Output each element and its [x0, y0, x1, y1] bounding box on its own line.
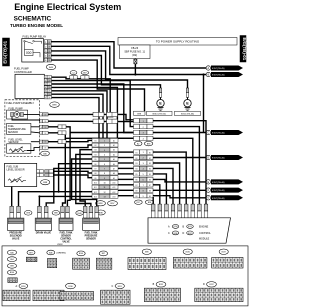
- connector arrow C: [206, 130, 210, 134]
- wire node B down to node C wire: [203, 75, 205, 133]
- svg-text:1B: 1B: [44, 114, 46, 116]
- svg-text:E157(TB-46): E157(TB-46): [212, 198, 225, 200]
- wire to column2 r3: [70, 132, 133, 134]
- svg-text:B146: B146: [10, 272, 14, 274]
- svg-text:2B: 2B: [48, 60, 50, 62]
- svg-text:B97: B97: [102, 253, 105, 255]
- svg-text:1B: 1B: [44, 148, 46, 150]
- svg-text:B98: B98: [27, 213, 30, 215]
- junction r6 join: [58, 191, 60, 193]
- view oval B137 grid: [219, 249, 228, 254]
- wire controller pin4: [52, 87, 134, 138]
- fuel temperature sensor: [7, 123, 31, 134]
- svg-text:3: 3: [143, 133, 144, 135]
- svg-text:2B: 2B: [48, 97, 50, 99]
- assembly pin connector: [40, 113, 43, 116]
- svg-text:3: 3: [104, 150, 105, 152]
- wire relay pin4 to ground G1: [51, 56, 160, 89]
- svg-text:B7: B7: [149, 185, 151, 187]
- view oval B46 green and grid: [47, 250, 55, 255]
- inline connector cells row1: [93, 112, 104, 116]
- svg-text:SCHEMATIC: SCHEMATIC: [14, 15, 52, 22]
- wire column1 r6 down join: [59, 164, 92, 192]
- svg-text:FUEL TANK: FUEL TANK: [85, 232, 98, 235]
- svg-text:B136: B136: [68, 286, 72, 288]
- fuel tank sensor control valve: [61, 206, 65, 212]
- svg-text:M: M: [16, 113, 19, 117]
- svg-text:7: 7: [104, 169, 105, 171]
- svg-text:(GREEN): (GREEN): [57, 253, 67, 255]
- connector label box left: [134, 111, 146, 115]
- svg-text:B5: B5: [149, 174, 151, 176]
- wire relay pin6 down: [51, 60, 144, 111]
- svg-text:CONTROL: CONTROL: [199, 232, 211, 235]
- svg-text:LEVEL SENSOR: LEVEL SENSOR: [7, 169, 25, 172]
- svg-text:4: 4: [143, 169, 144, 171]
- svg-text:B1: B1: [149, 152, 151, 154]
- wire group2 r9 to node G: [153, 196, 206, 198]
- wire controller pin1 with inline connector: [52, 77, 111, 113]
- svg-text:13: 13: [103, 197, 105, 199]
- wire group2 r7 to ECM pin2: [153, 185, 160, 204]
- wire assembly pin2 inline: [48, 120, 133, 122]
- svg-text:1: 1: [143, 152, 144, 154]
- svg-text:A6: A6: [113, 163, 115, 166]
- svg-text:B5: B5: [135, 174, 137, 176]
- svg-text:B5: B5: [94, 159, 96, 161]
- svg-text:B2: B2: [137, 143, 139, 145]
- wire group2 r8 to node F: [153, 189, 206, 191]
- svg-text:B98: B98: [54, 213, 57, 215]
- svg-text:VALVE: VALVE: [12, 238, 20, 241]
- fuse SBF-5 symbol: [134, 59, 137, 64]
- ground G1 B310: [159, 88, 161, 93]
- svg-text:A10: A10: [112, 181, 115, 184]
- svg-text:E: E: [159, 102, 162, 106]
- svg-text:1B: 1B: [44, 142, 46, 144]
- svg-text:E157(TB-46): E157(TB-46): [212, 182, 225, 184]
- svg-text:B6: B6: [135, 180, 137, 182]
- svg-text:B2: B2: [149, 158, 151, 160]
- svg-text:B3: B3: [149, 163, 151, 165]
- svg-text:B98: B98: [148, 202, 151, 204]
- svg-text:B3: B3: [94, 150, 96, 152]
- svg-text:E157(TB-46): E157(TB-46): [212, 190, 225, 192]
- svg-text:B7: B7: [94, 168, 96, 170]
- engine control module box: [148, 218, 231, 243]
- right page tab E/G(TB)-01: [240, 36, 246, 63]
- view oval B136 grid: [183, 249, 192, 254]
- view oval B97b grid: [99, 251, 107, 256]
- inline connector column2 group1: [134, 119, 140, 123]
- wire group1 r3 to node C: [153, 132, 206, 134]
- wire temp sensor to pins: [31, 126, 40, 128]
- wire group2 r1 to ECM pin6: [153, 152, 186, 204]
- svg-text:B135: B135: [188, 226, 192, 228]
- view grid bottom row 2: [33, 290, 64, 301]
- svg-text:A4: A4: [113, 153, 115, 156]
- svg-text:B8: B8: [149, 191, 151, 193]
- svg-text:E157(TB-45): E157(TB-45): [212, 75, 225, 77]
- svg-text:E/G(TB)-01: E/G(TB)-01: [2, 40, 7, 63]
- svg-text:2B: 2B: [48, 80, 50, 82]
- wire group1 r1 to ECM pin9: [153, 121, 206, 204]
- view oval B94: [7, 257, 16, 262]
- wire assembly pin3 down to control valve pin2: [48, 127, 70, 207]
- view grid bottom row 4: [101, 290, 130, 304]
- view oval B97 and grid: [27, 250, 35, 255]
- wire ECM pin1 stub: [152, 197, 154, 204]
- inline connector cells on controller wire: [70, 76, 77, 79]
- svg-text:VALVE: VALVE: [62, 241, 70, 244]
- wire group2 r6 to node E: [153, 179, 206, 182]
- svg-text:B13: B13: [94, 196, 97, 198]
- junction drain valve wire: [38, 195, 40, 197]
- svg-text:C: C: [168, 232, 170, 235]
- svg-text:12: 12: [103, 192, 105, 194]
- svg-text:D: D: [183, 232, 185, 235]
- wire assembly pin4 down to control valve pin1: [48, 133, 65, 207]
- svg-text:B94: B94: [10, 259, 13, 261]
- oval connector B98 comp1: [24, 211, 32, 216]
- svg-text:B3: B3: [135, 163, 137, 165]
- svg-text:SENSOR: SENSOR: [86, 239, 96, 241]
- view grid bottom row 1: [3, 290, 30, 301]
- svg-text:C2: C2: [72, 72, 74, 74]
- wire relay pin2 to node B: [51, 46, 206, 74]
- svg-text:PRESSURE: PRESSURE: [85, 236, 98, 238]
- wire controller pin5: [52, 91, 108, 139]
- svg-text:A13: A13: [112, 195, 115, 198]
- terminal cell controller pin1: [107, 113, 113, 117]
- svg-text:B97: B97: [83, 72, 86, 74]
- svg-text:(R2): (R2): [132, 54, 137, 57]
- inline connector column B98/R57: [92, 138, 99, 142]
- box TO POWER SUPPLY ROUTING: [118, 38, 237, 46]
- svg-text:B46: B46: [10, 252, 13, 254]
- svg-text:B11: B11: [94, 187, 97, 189]
- svg-text:A3: A3: [113, 149, 115, 152]
- oval connector R57 below column1: [108, 201, 118, 206]
- oval connector B98 comp2: [52, 211, 60, 216]
- svg-text:B98: B98: [145, 252, 148, 254]
- svg-text:B146: B146: [79, 253, 83, 255]
- svg-text:B12: B12: [94, 192, 97, 194]
- svg-text:5: 5: [104, 159, 105, 161]
- svg-text:4: 4: [104, 155, 105, 157]
- svg-text:7: 7: [45, 97, 46, 99]
- svg-text:6: 6: [143, 180, 144, 182]
- oval connector B98 below column1: [96, 201, 106, 206]
- junction node B branch: [202, 73, 204, 75]
- wire fuse to node B: [134, 58, 136, 61]
- svg-text:ENGINE: ENGINE: [199, 225, 209, 228]
- oval connector B97: [81, 71, 89, 75]
- svg-text:B311: B311: [118, 286, 122, 288]
- svg-text:A9: A9: [113, 177, 115, 180]
- wire group2 r4 to ECM pin4: [153, 168, 173, 204]
- view oval B46: [7, 250, 16, 255]
- svg-text:B6: B6: [94, 164, 96, 166]
- svg-text:2B: 2B: [48, 56, 50, 58]
- svg-text:2: 2: [104, 145, 105, 147]
- svg-text:6: 6: [41, 148, 42, 150]
- wire column1 r12 to solenoid pin2: [19, 192, 93, 207]
- view oval B146 grid: [77, 251, 85, 256]
- svg-text:TURBO ENGINE MODEL: TURBO ENGINE MODEL: [10, 23, 63, 28]
- ground G2 B311: [186, 88, 188, 93]
- wire column1 r13 to drain valve pin1: [39, 196, 92, 206]
- svg-text:B135: B135: [159, 284, 163, 286]
- svg-text:D: D: [203, 283, 205, 286]
- svg-text:5: 5: [45, 91, 46, 93]
- svg-text:9: 9: [104, 178, 105, 180]
- svg-text:C :: C :: [112, 285, 115, 288]
- wires column1 to column2: [118, 151, 134, 153]
- svg-text:3: 3: [41, 127, 42, 129]
- svg-text:B4: B4: [94, 154, 96, 156]
- view oval B146: [7, 270, 16, 275]
- junction fuse/node B: [134, 73, 136, 75]
- wire assembly pin5 to connector column1: [48, 140, 92, 141]
- svg-text:PRESSURE: PRESSURE: [9, 233, 22, 235]
- inline connector column2 group2: [134, 150, 140, 154]
- svg-text:000: 000: [26, 51, 32, 55]
- svg-text:A8: A8: [113, 172, 115, 175]
- svg-text:SOLENOID: SOLENOID: [10, 236, 22, 238]
- svg-text:B6: B6: [149, 180, 151, 182]
- svg-text:4: 4: [41, 133, 42, 135]
- oval connector pair below group1: [134, 141, 142, 145]
- svg-text:FUEL PUMP ASSEMBLY: FUEL PUMP ASSEMBLY: [6, 102, 34, 105]
- svg-text:B2: B2: [135, 158, 137, 160]
- svg-text:E157(TB-45): E157(TB-45): [212, 68, 225, 70]
- wire controller pin2: [52, 81, 134, 127]
- wire controller pin7: [52, 98, 100, 139]
- svg-text:B1: B1: [94, 140, 96, 142]
- svg-text:B4: B4: [135, 169, 137, 171]
- wire controller pin3: [52, 84, 134, 133]
- svg-text:A5: A5: [113, 158, 115, 161]
- wire relay pin3 to ground G2: [51, 51, 187, 88]
- svg-text:B137: B137: [188, 233, 192, 235]
- svg-text:B9: B9: [94, 178, 96, 180]
- connector arrow E: [206, 180, 210, 184]
- svg-text:A :: A :: [16, 285, 19, 288]
- connector arrow B E157: [206, 72, 210, 76]
- svg-text:2B: 2B: [48, 77, 50, 79]
- wire assembly pin1 inline: [48, 114, 133, 119]
- svg-text:2B: 2B: [48, 91, 50, 93]
- oval connector B46 below assembly: [41, 151, 50, 156]
- connector arrow F: [206, 188, 210, 192]
- svg-text:VIEW: VIEW: [57, 244, 64, 246]
- svg-text:TO POWER SUPPLY ROUTING: TO POWER SUPPLY ROUTING: [156, 40, 200, 44]
- svg-text:B97: B97: [29, 252, 32, 254]
- relay coil: [25, 50, 34, 56]
- svg-text:C: C: [207, 131, 209, 134]
- svg-text:10: 10: [103, 183, 105, 185]
- svg-text:2: 2: [143, 158, 144, 160]
- svg-text:1: 1: [45, 77, 46, 79]
- sub sensor pin connector: [37, 170, 40, 173]
- svg-text:SENSOR: SENSOR: [8, 131, 18, 134]
- svg-text:B134: B134: [174, 226, 178, 228]
- wire group1 r2 to ECM pin8: [153, 127, 199, 205]
- oval connector B98 sub: [41, 180, 50, 185]
- svg-text:B9: B9: [135, 196, 137, 198]
- oval connector B46 top: [46, 64, 56, 69]
- svg-text:8: 8: [104, 173, 105, 175]
- wire sub sensor row2: [53, 175, 92, 178]
- svg-text:2B: 2B: [48, 87, 50, 89]
- svg-text:B46: B46: [43, 153, 46, 155]
- fuse box FB-26 SBF FUSE NO.11: [120, 45, 151, 59]
- svg-text:B10: B10: [94, 182, 97, 184]
- wire sub box to solenoid pin1: [11, 187, 13, 207]
- controller box: [15, 74, 44, 98]
- relay box: [22, 39, 44, 63]
- svg-text:2: 2: [41, 121, 42, 123]
- view grid bottom row 6: [195, 288, 243, 301]
- svg-text:E: E: [186, 102, 189, 106]
- svg-text:E157(TB-46): E157(TB-46): [212, 133, 225, 135]
- svg-text:2B: 2B: [48, 94, 50, 96]
- svg-text:1: 1: [143, 121, 144, 123]
- svg-text:CONTROLLER: CONTROLLER: [14, 70, 32, 74]
- svg-text:B137: B137: [209, 284, 213, 286]
- svg-text:B98: B98: [147, 143, 150, 145]
- wire sub sensor row1: [53, 171, 92, 173]
- svg-text:A11: A11: [113, 186, 116, 189]
- wire column1 r4 to pressure sensor pin2: [76, 154, 92, 206]
- svg-text:3: 3: [143, 163, 144, 165]
- fuel pump assembly dashed box: [5, 100, 40, 157]
- controller pin connector: [44, 76, 47, 79]
- view oval B98b grid: [142, 249, 151, 254]
- svg-text:11: 11: [104, 187, 106, 189]
- svg-text:2: 2: [143, 127, 144, 129]
- label FUEL PUMP ASSEMBLY: [6, 101, 39, 105]
- svg-text:A2: A2: [113, 144, 115, 147]
- svg-text:DRAIN VALVE: DRAIN VALVE: [36, 232, 52, 235]
- wire pump to pins: [24, 113, 40, 115]
- svg-text:B311 (TB-56): B311 (TB-56): [181, 113, 194, 115]
- pressure solenoid valve: [10, 206, 14, 212]
- svg-text:B7: B7: [135, 185, 137, 187]
- oval connector B98 assembly: [50, 102, 60, 107]
- svg-text:1: 1: [41, 114, 42, 116]
- svg-text:9: 9: [143, 196, 144, 198]
- svg-text:E157(TB-46): E157(TB-46): [212, 158, 225, 160]
- wire controller pin6: [52, 94, 104, 138]
- svg-text:6: 6: [45, 94, 46, 96]
- wire group1 r4 to ECM pin7: [153, 138, 193, 204]
- wire group2 r5 to ECM pin3: [153, 174, 166, 204]
- svg-text:G: G: [207, 197, 209, 200]
- svg-text:R57: R57: [137, 202, 140, 204]
- svg-text:D: D: [207, 156, 209, 159]
- svg-text:FUEL TANK: FUEL TANK: [60, 232, 73, 235]
- wire column1 r3 to pressure sensor pin1: [80, 150, 92, 207]
- svg-text:B146: B146: [77, 213, 81, 215]
- svg-text:B4: B4: [149, 169, 151, 171]
- svg-text:E/G(TB)-01: E/G(TB)-01: [242, 37, 247, 60]
- svg-text:5: 5: [143, 174, 144, 176]
- wire column1 r7 to drain valve pin2: [46, 168, 92, 206]
- svg-text:B8: B8: [94, 173, 96, 175]
- svg-text:B2: B2: [94, 145, 96, 147]
- svg-text:5: 5: [41, 142, 42, 144]
- relay pin connector: [44, 40, 47, 44]
- svg-text:B137: B137: [222, 252, 226, 254]
- svg-text:CONTROL: CONTROL: [60, 239, 72, 241]
- view grid bottom row 3: [60, 292, 94, 300]
- svg-text:Engine Electrical System: Engine Electrical System: [14, 2, 121, 12]
- connector view frame: [2, 246, 248, 306]
- svg-text:1B: 1B: [44, 127, 46, 129]
- svg-text:B310: B310: [21, 286, 25, 288]
- wire to column2 r4: [65, 137, 133, 139]
- wire level sensor to pins: [31, 141, 40, 143]
- svg-text:B8: B8: [135, 191, 137, 193]
- svg-text:1B: 1B: [44, 133, 46, 135]
- svg-text:A1: A1: [113, 139, 115, 142]
- ECM pin connectors: [151, 204, 155, 211]
- svg-text:4: 4: [45, 87, 46, 89]
- wire assembly pin6 to connector column1: [48, 145, 92, 148]
- view oval B98: [7, 263, 16, 268]
- wire relay pin1 to node A: [51, 42, 206, 68]
- connector arrow D: [206, 155, 210, 159]
- fuel tank pressure sensor: [83, 206, 87, 212]
- view oval B136 bottom: [66, 283, 76, 289]
- inline connector cells row2: [93, 119, 104, 123]
- svg-text:6: 6: [104, 164, 105, 166]
- oval connector C2: [70, 71, 77, 75]
- wire column1 r5 to pressure sensor pin3: [72, 159, 97, 206]
- svg-text:7: 7: [143, 185, 144, 187]
- svg-text:1: 1: [104, 141, 105, 143]
- wire group2 r2 to node D: [153, 157, 206, 159]
- svg-text:A7: A7: [113, 167, 115, 170]
- svg-text:SENSOR: SENSOR: [61, 236, 71, 238]
- svg-text:4: 4: [143, 139, 144, 141]
- svg-text:2B: 2B: [48, 42, 50, 44]
- svg-text:2B: 2B: [48, 51, 50, 53]
- inline cells on assembly wires: [58, 125, 66, 129]
- view grid bottom row 5: [144, 288, 180, 301]
- connector arrow G: [206, 196, 210, 200]
- connector arrow A E157: [206, 66, 210, 70]
- oval connector B98 lower: [96, 210, 105, 215]
- svg-text:B136: B136: [174, 233, 178, 235]
- svg-text:B1: B1: [135, 152, 137, 154]
- svg-text:B98: B98: [10, 266, 13, 268]
- svg-text:B9: B9: [149, 196, 151, 198]
- svg-text:B310 (TB-56): B310 (TB-56): [153, 113, 166, 115]
- svg-text:B136: B136: [186, 252, 190, 254]
- left page tab E/G(TB)-01: [3, 38, 10, 66]
- svg-text:MODULE: MODULE: [199, 238, 210, 241]
- svg-text:2: 2: [45, 80, 46, 82]
- view grid small left: [8, 278, 17, 283]
- wire group2 r3 to ECM pin5: [153, 163, 180, 204]
- svg-text:8: 8: [143, 190, 144, 192]
- oval connector pair below column2: [135, 200, 143, 204]
- svg-text:2B: 2B: [48, 46, 50, 48]
- oval connector B146 comp3: [76, 211, 84, 216]
